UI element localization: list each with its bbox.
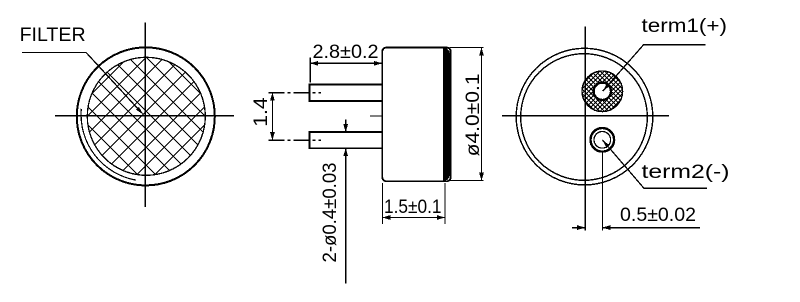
svg-text:ø4.0±0.1: ø4.0±0.1 [462, 73, 484, 156]
leader line FILTER [22, 52, 140, 111]
arrow pin dia upper [343, 124, 348, 132]
dimension ø4.0 bottom extension line [450, 180, 484, 182]
leader line pin dia lower [345, 148, 347, 283]
arrow ø4.0 bottom [479, 173, 484, 181]
capsule outer rim circle [77, 47, 215, 185]
arrow 0.5 left [577, 225, 585, 230]
svg-text:1.5±0.1: 1.5±0.1 [384, 196, 442, 218]
terminal 2 inner circle [594, 132, 611, 149]
arrow ø4.0 top [479, 48, 484, 56]
svg-text:2-ø0.4±0.03: 2-ø0.4±0.03 [319, 163, 341, 263]
terminal 1 ring hatch lines [582, 71, 622, 111]
terminal 2 outer circle [591, 128, 615, 152]
leader term2 [602, 140, 707, 189]
filter mesh hatch lines [88, 58, 206, 175]
arrow 1.4 top [270, 93, 275, 101]
svg-text:2.8±0.2: 2.8±0.2 [313, 41, 379, 63]
arrow 1.5 left [382, 215, 390, 220]
leader line pin dia upper [345, 120, 347, 133]
arrow pin dia lower [343, 148, 348, 156]
filter mesh circle (crosshatched) [87, 57, 205, 175]
svg-text:FILTER: FILTER [20, 24, 86, 46]
arrow 1.5 right [437, 215, 445, 220]
dimension 0.5 line left part [572, 227, 585, 229]
svg-text:0.5±0.02: 0.5±0.02 [620, 204, 696, 226]
capsule rim inner arc (lower-left) [81, 109, 136, 180]
arrow 0.5 right [602, 225, 610, 230]
svg-text:term1(+): term1(+) [642, 15, 728, 37]
terminal 1 inner white disc [592, 81, 612, 101]
dimension ø4.0 top extension line [450, 47, 484, 49]
dimension 1.5 right extension line [444, 183, 446, 224]
arrowhead term1 [603, 83, 610, 91]
dimension 1.5 line [382, 217, 445, 219]
arrow 2.8 right [374, 61, 382, 66]
arrow 2.8 left [310, 61, 318, 66]
top pin [310, 84, 383, 101]
bottom pin [310, 132, 383, 148]
inner rim circle [521, 54, 648, 181]
capsule body [382, 48, 450, 182]
dimension 1.4 line [271, 93, 273, 141]
dimension ø4.0 line [481, 48, 483, 181]
vertical centerline [584, 27, 586, 231]
vertical centerline [144, 23, 146, 208]
dimension 1.5 left extension line [381, 183, 383, 224]
terminal 1 inner circle [594, 83, 611, 100]
black back cap [443, 48, 451, 181]
leader term1 [603, 45, 706, 92]
dimension 0.5 line right part [602, 227, 700, 229]
arrowhead term2 [602, 140, 609, 148]
horizontal centerline [502, 115, 669, 117]
term2 extension line down [601, 152, 603, 231]
arrow 1.4 bottom [270, 132, 275, 140]
arrowhead FILTER leader [136, 107, 143, 115]
top pin centerline [269, 92, 322, 94]
dimension 2.8±0.2 extension line [309, 58, 311, 83]
body centerline dash [370, 115, 383, 117]
terminal 1 hatched ring [582, 71, 623, 112]
outer rim circle [516, 48, 653, 185]
horizontal centerline [55, 115, 234, 117]
dimension 2.8±0.2 line [310, 62, 382, 64]
bottom pin centerline [269, 139, 322, 141]
svg-text:1.4: 1.4 [250, 97, 272, 127]
svg-text:term2(-): term2(-) [642, 161, 730, 183]
